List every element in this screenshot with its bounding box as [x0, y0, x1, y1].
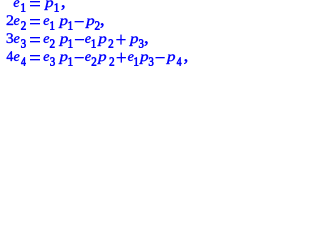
equation line 4: 4e4 = e3p1 - e2p2 + e1p3 - p4,	[7, 51, 188, 65]
equation line 2: 2e2 = e1p1 - p2,	[7, 15, 104, 29]
equation line 3: 3e3 = e2p1 - e1p2 + p3,	[7, 33, 148, 47]
equation line 1: e1 = p1,	[14, 0, 65, 11]
